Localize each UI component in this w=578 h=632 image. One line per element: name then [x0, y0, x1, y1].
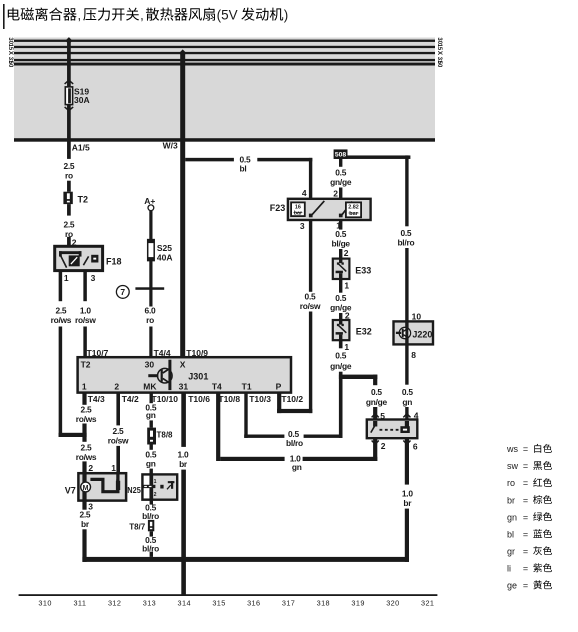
E33 contacts: [337, 259, 344, 265]
svg-text:bl/ro: bl/ro: [397, 237, 414, 247]
wire to F23 pin2: [339, 188, 342, 199]
wire J301 T10/8 stub: [216, 393, 220, 461]
label T8/8: [157, 431, 174, 440]
label F23: [270, 203, 286, 213]
wire T8/8 to label: [150, 445, 153, 450]
connector dashed link: [380, 429, 401, 431]
svg-text:F18: F18: [106, 257, 122, 267]
wire 508 to right corner: [348, 155, 411, 159]
E33 lever: [338, 264, 346, 272]
wire T10/10 stub: [150, 393, 153, 404]
F18 left lever: [61, 256, 67, 268]
svg-text:ro/sw: ro/sw: [300, 301, 321, 311]
svg-text:15: 15: [436, 44, 443, 51]
connector T2: [63, 192, 72, 204]
E32 lever: [338, 325, 346, 333]
svg-text:2.5: 2.5: [63, 219, 74, 229]
wire pin6 to ground bus: [405, 509, 409, 562]
svg-text:1.0: 1.0: [80, 305, 91, 315]
svg-text:0.5: 0.5: [335, 293, 346, 303]
V7 winding path: [90, 479, 120, 492]
wire to V7 pin1: [116, 446, 120, 473]
svg-text:ro: ro: [146, 315, 154, 325]
svg-text:bl/ro: bl/ro: [142, 511, 159, 521]
wire label 0.5 bl/ro (T10/3): [286, 429, 303, 448]
svg-text:2.5: 2.5: [81, 404, 92, 414]
wire T4/3 stub: [82, 393, 86, 405]
svg-text:4: 4: [302, 188, 307, 198]
svg-text:MK: MK: [143, 381, 157, 391]
bus line 50: [14, 63, 435, 66]
svg-text:1: 1: [154, 479, 157, 485]
svg-text:gn: gn: [507, 512, 517, 522]
J301 inside top labels: [81, 359, 186, 369]
wire F23 pin3 down: [309, 220, 312, 292]
svg-text:gr: gr: [507, 546, 515, 556]
wire E32 pin1 long: [339, 372, 343, 438]
svg-text:320: 320: [386, 598, 399, 607]
wire pin6 down: [405, 438, 409, 484]
wire T8/7 down: [150, 531, 153, 536]
wire T10/6 to bottom: [181, 470, 186, 596]
F18 right element: [91, 255, 98, 263]
wire 1.0 gn left segment: [220, 457, 284, 461]
svg-text:gn/ge: gn/ge: [366, 397, 388, 407]
svg-text:2: 2: [88, 463, 93, 473]
N25 contact dot: [160, 485, 163, 489]
svg-text:=: =: [523, 444, 528, 454]
svg-text:T10/7: T10/7: [87, 348, 109, 358]
wire J220 pin8 down: [405, 344, 408, 384]
svg-text:gn: gn: [402, 397, 412, 407]
wire label 1.0 br (pin6): [402, 489, 413, 508]
wire to pin4: [405, 407, 408, 420]
pin labels 1 and 3 of F18: [64, 273, 96, 283]
wire E32 pin1 down: [339, 340, 343, 348]
svg-text:=: =: [523, 495, 528, 505]
ground bus wire: [82, 557, 409, 562]
pin label 2 of E33: [344, 248, 349, 258]
wire to E33 pin2: [339, 249, 342, 259]
svg-text:gn/ge: gn/ge: [330, 361, 352, 371]
arrow below S19: [65, 107, 74, 111]
wire label 2.5 ro/ws (2): [76, 442, 97, 462]
svg-text:T10/6: T10/6: [188, 394, 210, 404]
wire bus30 to fuse S19: [67, 41, 71, 87]
N25 terminal bar: [142, 485, 155, 488]
svg-text:T4: T4: [212, 381, 222, 391]
svg-text:bl: bl: [507, 529, 514, 539]
bus bar band background: [14, 38, 435, 142]
pin label 2 of F23: [333, 188, 338, 198]
pin label 1 of F23: [336, 221, 341, 231]
svg-text:2.5: 2.5: [55, 305, 66, 315]
label J220: [412, 330, 432, 340]
svg-text:2: 2: [345, 310, 350, 320]
bus line 30: [14, 40, 435, 42]
svg-text:J220: J220: [412, 330, 432, 340]
svg-text:1: 1: [344, 281, 349, 291]
wire F18 pin3 down: [83, 271, 87, 302]
motor V7 box: [78, 473, 126, 500]
switch E32 box: [333, 320, 350, 340]
wire label 6.0 ro: [145, 305, 156, 325]
track numbers 310-321: [38, 598, 434, 607]
svg-text:314: 314: [178, 598, 191, 607]
svg-text:T10/2: T10/2: [281, 394, 303, 404]
svg-text:li: li: [507, 563, 511, 573]
wire V7 pin3 to ground bus: [82, 529, 86, 562]
wire label 0.5 gn (1): [145, 403, 156, 421]
bus line X: [14, 52, 435, 54]
svg-text:=: =: [523, 529, 528, 539]
wire S25 down: [149, 261, 152, 307]
svg-text:40A: 40A: [157, 252, 173, 262]
pin label 4 of F23: [302, 188, 307, 198]
wire corner down to J220: [405, 155, 408, 226]
svg-text:1: 1: [111, 463, 116, 473]
pin label 2 of F18: [72, 238, 77, 248]
wire T10/6 stub: [181, 393, 186, 447]
label J301: [188, 371, 208, 381]
V7 pin1 wire inside: [116, 473, 119, 481]
svg-text:311: 311: [73, 598, 86, 607]
wire 0.5 bl left segment: [185, 158, 234, 162]
connector lever: [371, 424, 376, 432]
label A1/5: [72, 143, 90, 153]
svg-text:310: 310: [38, 598, 51, 607]
svg-text:bar: bar: [349, 211, 358, 217]
J301 top pin labels: [87, 348, 209, 358]
F23 contact nub pin1: [339, 214, 343, 218]
bus line 31: [14, 59, 435, 61]
V7 motor symbol: [81, 482, 91, 492]
wire to V7 pin2: [82, 461, 86, 473]
svg-text:50: 50: [7, 61, 14, 68]
label E32: [356, 327, 372, 337]
wire T4/3 mid: [82, 424, 86, 442]
wire S19 to A1/5: [67, 105, 71, 159]
svg-text:2.5: 2.5: [79, 509, 90, 519]
relay N25 box: [142, 474, 177, 499]
svg-text:321: 321: [421, 598, 434, 607]
F23 contact nub pin3: [309, 214, 313, 218]
svg-text:6: 6: [413, 441, 418, 451]
svg-text:T1: T1: [242, 381, 252, 391]
svg-text:30A: 30A: [74, 95, 90, 105]
svg-text:X: X: [7, 51, 14, 56]
svg-text:X: X: [436, 51, 443, 56]
pin label 5: [380, 411, 385, 421]
label N25: [127, 485, 141, 495]
connector element: [400, 426, 409, 433]
svg-text:315: 315: [212, 598, 225, 607]
label S19 30A: [74, 86, 90, 105]
wire label 1.0 br: [178, 450, 189, 469]
wire label 0.5 bl/ro: [397, 228, 414, 248]
wire J301 T10/3 stub: [244, 393, 247, 438]
svg-text:=: =: [523, 546, 528, 556]
wire to T8/8: [150, 420, 153, 427]
svg-text:br: br: [507, 495, 515, 505]
svg-text:ws: ws: [506, 444, 518, 454]
switch E33 box: [333, 259, 350, 279]
relay J220 box: [394, 321, 434, 344]
J220 wire through: [405, 321, 408, 344]
pin label 1 of E33: [344, 281, 349, 291]
svg-text:2: 2: [381, 441, 386, 451]
svg-text:=: =: [523, 512, 528, 522]
svg-text:318: 318: [317, 598, 330, 607]
svg-text:ge: ge: [507, 581, 517, 591]
svg-text:br: br: [403, 498, 412, 508]
svg-text:T4/2: T4/2: [122, 394, 139, 404]
svg-text:P: P: [276, 381, 282, 391]
svg-text:8: 8: [411, 350, 416, 360]
svg-text:br: br: [81, 519, 90, 529]
svg-text:V7: V7: [65, 486, 76, 496]
svg-text:N25: N25: [127, 485, 141, 495]
wire label 2.5 br: [79, 509, 90, 529]
svg-text:): ): [284, 8, 289, 23]
svg-text:J301: J301: [188, 371, 208, 381]
wire A+ to S25: [149, 211, 152, 240]
wire label 1.0 ro/sw: [75, 305, 96, 325]
junction wire to V7 branch: [59, 433, 87, 437]
J301 inside bottom labels: [82, 381, 282, 391]
connector T8/7: [148, 520, 154, 531]
svg-text:312: 312: [108, 598, 121, 607]
fan switch connector box: [367, 420, 418, 439]
svg-text:M: M: [83, 485, 89, 492]
svg-text:0.5: 0.5: [335, 167, 346, 177]
wire to T2: [67, 181, 71, 192]
wire V7 pin3 down: [82, 501, 86, 510]
svg-text:0.5: 0.5: [335, 351, 346, 361]
pin label 3 of V7: [88, 502, 93, 512]
F23 sub-box 2.82 bar: [346, 202, 361, 217]
svg-text:ro: ro: [65, 171, 73, 181]
svg-text:317: 317: [282, 598, 295, 607]
wire label 0.5 ro/sw: [300, 292, 321, 312]
wire to J220 pin10: [405, 248, 408, 321]
F18 thermal element: [69, 255, 80, 266]
wire E33 pin1 down: [339, 279, 342, 293]
wire T2 to F18: [67, 204, 71, 216]
wire J301 P stub: [277, 393, 281, 414]
connector pin5 wire inside: [373, 421, 377, 427]
svg-text:br: br: [179, 459, 188, 469]
label E33: [355, 266, 371, 276]
J220 transistor: [396, 327, 411, 338]
svg-text:gn: gn: [146, 410, 156, 420]
wire label 0.5 bl/ro (below T8/7): [142, 535, 159, 554]
fuse S19: [65, 87, 72, 105]
pressure switch F23 box: [288, 199, 371, 220]
F23 left lever: [312, 201, 324, 215]
svg-text:bar: bar: [294, 210, 303, 216]
wire to pin5: [373, 407, 377, 420]
svg-text:0.5: 0.5: [335, 229, 346, 239]
E32 bar: [336, 332, 343, 340]
colour legend: [506, 444, 552, 591]
svg-text:T4/3: T4/3: [88, 394, 105, 404]
label W/3: [163, 141, 178, 151]
wire label 0.5 gn: [402, 387, 413, 407]
pin label 2 of E32: [345, 310, 350, 320]
node on bus X: [179, 49, 186, 56]
svg-text:10: 10: [412, 312, 422, 322]
wire 0.5 bl right segment: [257, 158, 312, 162]
svg-text:50: 50: [436, 61, 443, 68]
wire label 2.5 ro/ws (1): [76, 404, 97, 424]
E32 contacts: [337, 320, 344, 326]
wire to E32 pin2: [339, 313, 342, 320]
svg-text:15: 15: [7, 44, 14, 51]
svg-text:2.82: 2.82: [348, 205, 359, 211]
pin label 2: [381, 441, 386, 451]
wire label 0.5 gn/ge: [330, 167, 352, 187]
wire into F18 pin 2: [67, 237, 71, 252]
title text: [8, 7, 289, 22]
label S25 40A: [157, 243, 173, 262]
label T8/7: [129, 522, 146, 531]
pin label 1 of E32: [344, 342, 349, 352]
wire label 0.5 bl/ro (above T8/7): [142, 503, 159, 522]
svg-text:S25: S25: [157, 243, 172, 253]
svg-text:E32: E32: [356, 327, 372, 337]
svg-text:T10/3: T10/3: [249, 394, 271, 404]
svg-text:sw: sw: [507, 461, 519, 471]
svg-text:bl: bl: [240, 164, 247, 174]
svg-text:508: 508: [335, 152, 347, 159]
label V7: [65, 486, 76, 496]
terminal A+: [144, 196, 155, 211]
bottom border line: [19, 594, 438, 596]
J301 bottom pin labels: [88, 394, 304, 404]
pin label 3 of F23: [300, 221, 305, 231]
wire to N25: [150, 469, 153, 475]
svg-text:2.5: 2.5: [81, 442, 92, 452]
F23 right lever: [342, 202, 352, 215]
svg-text:=: =: [523, 461, 528, 471]
svg-text:E33: E33: [355, 266, 371, 276]
pin label 6: [413, 441, 418, 451]
wire label 2.5 ro/sw: [108, 426, 129, 446]
label F18: [106, 257, 122, 267]
svg-text:T8/8: T8/8: [157, 431, 174, 440]
pin labels 2 and 1 of V7: [88, 463, 116, 473]
wire N25 to label: [150, 500, 153, 505]
svg-text:T4/4: T4/4: [154, 348, 171, 358]
wire T4/2 stub: [116, 393, 120, 426]
arrow pin6: [403, 441, 410, 445]
svg-text:31: 31: [179, 381, 189, 391]
svg-text:,: ,: [78, 8, 82, 23]
svg-text:2: 2: [154, 492, 157, 498]
fuse S25: [148, 240, 155, 261]
svg-text:2.5: 2.5: [113, 426, 124, 436]
svg-text:3: 3: [91, 273, 96, 283]
svg-text:ro: ro: [507, 478, 515, 488]
wire 1.0 gn right segment: [303, 457, 378, 461]
svg-text:F23: F23: [270, 203, 286, 213]
wire label 0.5 bl: [240, 154, 251, 173]
wire pin2 down: [373, 438, 377, 461]
title left bar: [3, 4, 5, 29]
wire F18 pin1 to junction: [59, 327, 63, 438]
wire F18 pin3 to J301 T10/7: [83, 327, 87, 358]
svg-text:gn: gn: [146, 458, 156, 468]
arrow pin5: [372, 414, 379, 418]
svg-text:3: 3: [300, 221, 305, 231]
E33 bar: [336, 271, 343, 279]
wire F23 pin3 to corner: [309, 312, 312, 414]
bus labels right (30 15 X 31 50): [436, 37, 443, 67]
N25 connector column: [144, 476, 151, 498]
svg-text:316: 316: [247, 598, 260, 607]
svg-text:(5V: (5V: [217, 8, 238, 23]
svg-text:30: 30: [145, 359, 155, 369]
svg-text:=: =: [523, 563, 528, 573]
bus labels left (30 15 X 31 50): [7, 37, 14, 67]
svg-text:319: 319: [351, 598, 364, 607]
svg-text:6.0: 6.0: [145, 305, 156, 315]
svg-text:gn/ge: gn/ge: [330, 177, 352, 187]
wire label 2.5 ro/ws: [51, 305, 72, 325]
svg-text:1: 1: [64, 273, 69, 283]
arrow pin4: [403, 414, 410, 418]
label T2: [78, 194, 89, 204]
wire to ground bus: [150, 552, 153, 557]
junction 508: [334, 149, 348, 159]
svg-text:T10/9: T10/9: [186, 348, 208, 358]
wire label 2.5 ro (2): [63, 219, 74, 239]
svg-text:T10/8: T10/8: [218, 394, 240, 404]
connector T8/8: [147, 428, 156, 445]
control unit J301 box: [78, 357, 291, 392]
svg-text:0.5: 0.5: [402, 387, 413, 397]
J301 transistor: [148, 360, 172, 390]
svg-text:bl/ro: bl/ro: [286, 438, 303, 448]
wire 508 down stub: [339, 159, 342, 167]
svg-text:ro/sw: ro/sw: [108, 435, 129, 445]
svg-text:0.5: 0.5: [371, 387, 382, 397]
wire W/3 bus X to J301 T10/9: [180, 54, 185, 357]
svg-text:1: 1: [82, 381, 87, 391]
N25 wire through: [149, 474, 153, 499]
switch F18 box: [55, 246, 103, 270]
wire label 2.5 ro: [63, 161, 74, 181]
svg-text:A1/5: A1/5: [72, 143, 90, 153]
svg-text:0.5: 0.5: [400, 228, 411, 238]
wire label 0.5 gn/ge (E33-E32): [330, 293, 352, 313]
svg-text:0.5: 0.5: [305, 292, 316, 302]
svg-text:ro/ws: ro/ws: [76, 452, 97, 462]
svg-text:X: X: [180, 359, 186, 369]
svg-text:ro/sw: ro/sw: [75, 315, 96, 325]
svg-text:W/3: W/3: [163, 141, 178, 151]
connector pin4 wire inside: [405, 421, 409, 428]
wire corner to J301 P: [277, 409, 312, 413]
N25 pin numbers: [154, 479, 157, 498]
svg-text:ro/ws: ro/ws: [76, 414, 97, 424]
label 8: [411, 350, 416, 360]
svg-text:2: 2: [344, 248, 349, 258]
wire label 0.5 gn/ge (E32 out): [330, 351, 352, 371]
F18 bridge contact: [59, 251, 82, 256]
band bottom border: [14, 138, 435, 142]
